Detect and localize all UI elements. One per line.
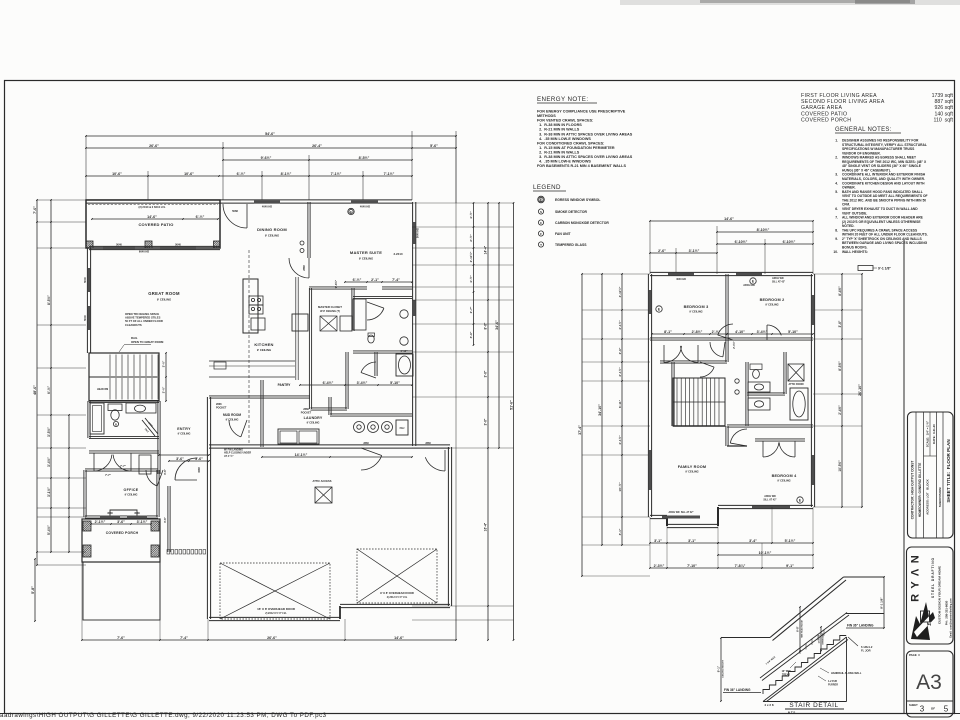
utility box bbox=[396, 420, 408, 435]
smoke detectors dining bbox=[300, 241, 304, 245]
left dim extension lines bbox=[37, 199, 86, 201]
kitchen dashed ceiling line bbox=[248, 250, 250, 445]
master suite south wall bbox=[309, 286, 367, 288]
svg-text:4'-½": 4'-½" bbox=[469, 211, 473, 219]
svg-text:7'-7": 7'-7" bbox=[105, 473, 112, 477]
svg-text:CUSTOM DESIGN YOUR DREAM HOME: CUSTOM DESIGN YOUR DREAM HOME bbox=[938, 566, 942, 624]
svg-text:8'-5½": 8'-5½" bbox=[838, 361, 842, 371]
first floor top dimension row 4 bbox=[86, 175, 412, 177]
stairwell west wall bbox=[671, 362, 673, 426]
svg-text:CEILING HEIGHT: CEILING HEIGHT bbox=[723, 659, 725, 677]
svg-text:PANTRY: PANTRY bbox=[278, 383, 292, 387]
svg-text:6'-11": 6'-11" bbox=[618, 399, 622, 408]
bath2 vanity bbox=[748, 382, 770, 392]
svg-text:CLEANOUTS: CLEANOUTS bbox=[125, 323, 142, 327]
porch steps bbox=[83, 562, 160, 620]
water heater circles bbox=[354, 422, 365, 433]
svg-text:6'-½": 6'-½" bbox=[47, 386, 51, 394]
svg-text:TEMPERED GLASS: TEMPERED GLASS bbox=[555, 243, 587, 247]
svg-text:7'-4": 7'-4" bbox=[392, 278, 400, 282]
svg-text:3068: 3068 bbox=[198, 467, 201, 473]
svg-text:FOR VENTED CRAWL SPACES:: FOR VENTED CRAWL SPACES: bbox=[537, 119, 593, 123]
svg-text:FOR ENERGY COMPLIANCE USE PRES: FOR ENERGY COMPLIANCE USE PRESCRIPTIVE bbox=[537, 110, 626, 114]
svg-text:10'-5½": 10'-5½" bbox=[838, 460, 842, 472]
svg-text:4 x 2 8: 4 x 2 8 bbox=[764, 703, 774, 707]
scan smudge top edge bbox=[620, 0, 960, 5]
bath1 fan bbox=[113, 421, 118, 426]
bath1 counter bbox=[126, 403, 156, 413]
svg-text:METHODS: METHODS bbox=[537, 114, 556, 118]
stair triangle base bbox=[763, 701, 847, 703]
svg-text:TREAD: TREAD bbox=[782, 673, 791, 676]
svg-text:2'-1½": 2'-1½" bbox=[618, 367, 622, 377]
svg-text:9' CEILING: 9' CEILING bbox=[777, 479, 790, 483]
svg-text:OPEN TO GREAT ROOM: OPEN TO GREAT ROOM bbox=[131, 340, 164, 344]
svg-text:887 sqft: 887 sqft bbox=[935, 99, 954, 105]
svg-text:DATE: 9-21-20: DATE: 9-21-20 bbox=[932, 424, 936, 444]
master bath east wall bbox=[412, 287, 414, 352]
info scale date divider bbox=[929, 412, 931, 456]
legend egress symbol bbox=[538, 196, 545, 203]
svg-text:3'-1": 3'-1" bbox=[618, 528, 622, 535]
bedroom windows top wall bbox=[668, 273, 694, 276]
svg-text:CARBON MONOXIDE DETECTOR: CARBON MONOXIDE DETECTOR bbox=[555, 221, 609, 225]
svg-text:2. R-21 MIN IN WALLS: 2. R-21 MIN IN WALLS bbox=[537, 128, 580, 132]
svg-text:2'-6": 2'-6" bbox=[618, 347, 622, 354]
counter edge bbox=[209, 376, 295, 378]
svg-text:ADDRESS: LOT BLOCK: ADDRESS: LOT BLOCK bbox=[925, 478, 929, 514]
svg-text:4'-10": 4'-10" bbox=[735, 330, 745, 334]
wc toilet bbox=[368, 335, 374, 343]
svg-text:DINING ROOM: DINING ROOM bbox=[257, 227, 287, 232]
bedroom4 east window bbox=[812, 455, 815, 485]
svg-text:GENERAL NOTES:: GENERAL NOTES: bbox=[835, 127, 892, 133]
svg-text:3'-½": 3'-½" bbox=[162, 386, 166, 393]
svg-text:4040 HD: 4040 HD bbox=[262, 205, 272, 209]
svg-text:5040: 5040 bbox=[175, 243, 181, 247]
svg-text:ARCH WD SILL AT 42": ARCH WD SILL AT 42" bbox=[668, 511, 693, 514]
svg-text:3.: 3. bbox=[835, 173, 838, 177]
stair upper floor outline bbox=[721, 637, 770, 639]
closet shelf X bbox=[320, 316, 337, 331]
legend carbon monoxide bbox=[538, 220, 543, 225]
svg-text:2'-1½": 2'-1½" bbox=[95, 520, 106, 524]
bedroom3 dims above closet bbox=[652, 333, 727, 335]
svg-text:5'-10": 5'-10" bbox=[390, 381, 400, 385]
left dimension chain short bbox=[68, 415, 70, 552]
svg-text:3'-1½": 3'-1½" bbox=[47, 487, 51, 497]
svg-text:3'-4½": 3'-4½" bbox=[47, 457, 51, 467]
title block left border bbox=[903, 240, 905, 713]
svg-text:SUBDIVISION:: SUBDIVISION: bbox=[938, 487, 942, 508]
svg-text:5'-1½": 5'-1½" bbox=[785, 539, 796, 543]
svg-text:9' CEILING: 9' CEILING bbox=[226, 418, 239, 421]
garage overhead door 16ft bbox=[220, 563, 330, 619]
svg-text:S T E E L D R A F T I N G: S T E E L D R A F T I N G bbox=[931, 557, 935, 598]
utility room walls bbox=[330, 413, 412, 415]
svg-text:9' CEILING: 9' CEILING bbox=[265, 234, 279, 238]
hall wall to entry bbox=[157, 401, 159, 474]
svg-text:BEDROOM 2: BEDROOM 2 bbox=[760, 298, 785, 302]
svg-text:9'-6½": 9'-6½" bbox=[261, 156, 272, 160]
svg-text:50 FT OF ALL UNDER FLOOR: 50 FT OF ALL UNDER FLOOR bbox=[125, 319, 163, 323]
svg-text:POCKET: POCKET bbox=[216, 407, 227, 410]
mud room walls bbox=[206, 397, 208, 447]
svg-text:7'-1½": 7'-1½" bbox=[331, 172, 342, 176]
svg-text:E: E bbox=[752, 280, 754, 284]
svg-text:2868: 2868 bbox=[425, 442, 431, 445]
bedrooms south wall bbox=[650, 337, 813, 339]
svg-text:ATTIC ROOM: ATTIC ROOM bbox=[789, 383, 804, 386]
svg-text:3'-1½": 3'-1½" bbox=[689, 249, 700, 253]
svg-text:14'-6": 14'-6" bbox=[724, 217, 734, 221]
stair right dim bbox=[883, 577, 885, 628]
svg-text:9' CEILING: 9' CEILING bbox=[157, 298, 171, 302]
svg-text:14'-6": 14'-6" bbox=[147, 215, 157, 219]
second floor right dim chain inner bbox=[841, 274, 843, 507]
bedroom4 door bbox=[730, 429, 747, 443]
stair side dims bbox=[165, 353, 167, 401]
svg-text:5.: 5. bbox=[835, 190, 838, 194]
garage door arcs bbox=[361, 456, 382, 471]
garage overhead door 9ft bbox=[357, 549, 437, 603]
svg-text:FOR BASEMENTS R-21 MIN 4 BASEM: FOR BASEMENTS R-21 MIN 4 BASEMENT WALLS bbox=[537, 164, 626, 168]
covered patio header dashed bbox=[88, 204, 218, 206]
svg-text:R Y Λ N: R Y Λ N bbox=[910, 554, 922, 602]
svg-text:3'-6": 3'-6" bbox=[484, 370, 488, 377]
svg-text:2'-8½": 2'-8½" bbox=[692, 330, 703, 334]
svg-text:110 sqft: 110 sqft bbox=[933, 117, 953, 123]
svg-text:3-2X10: 3-2X10 bbox=[393, 252, 402, 256]
svg-text:3'-1": 3'-1" bbox=[688, 539, 696, 543]
svg-text:9.: 9. bbox=[835, 237, 838, 241]
svg-text:3'-4½": 3'-4½" bbox=[757, 330, 768, 334]
svg-text:B: B bbox=[115, 423, 117, 427]
first floor top dimension row 3 bbox=[223, 159, 412, 161]
svg-text:4'-½": 4'-½" bbox=[469, 275, 473, 283]
svg-text:BEDROOM 4: BEDROOM 4 bbox=[772, 474, 797, 478]
right dim extensions bbox=[412, 202, 514, 204]
svg-text:GARAGE AREA: GARAGE AREA bbox=[801, 105, 843, 111]
svg-text:COVERED PATIO: COVERED PATIO bbox=[138, 222, 173, 227]
svg-text:48'-6": 48'-6" bbox=[33, 385, 37, 395]
stair left dim ceiling height bbox=[720, 638, 722, 701]
svg-text:6'-8": 6'-8" bbox=[796, 625, 800, 631]
entry angled pocket bbox=[142, 420, 155, 436]
legend fan unit bbox=[538, 231, 543, 236]
second floor bottom dims bbox=[650, 542, 718, 544]
svg-text:9' CEILING: 9' CEILING bbox=[685, 470, 698, 474]
svg-text:9'-6½": 9'-6½" bbox=[334, 279, 338, 288]
br3 west window bbox=[649, 290, 652, 314]
kitchen range bbox=[249, 296, 263, 305]
bedroom4 walls bbox=[725, 426, 727, 446]
svg-text:6.: 6. bbox=[835, 207, 838, 211]
svg-text:2'-6": 2'-6" bbox=[658, 249, 666, 253]
svg-text:6040 HD: 6040 HD bbox=[139, 250, 149, 254]
svg-text:LEGEND: LEGEND bbox=[533, 184, 561, 191]
hall east wall bbox=[345, 352, 347, 409]
hall door arcs bbox=[700, 367, 714, 377]
right corner extension line bbox=[455, 136, 457, 640]
second floor bottom extensions bbox=[666, 526, 668, 568]
wc door bbox=[361, 362, 376, 373]
svg-text:5040: 5040 bbox=[83, 277, 87, 283]
egress circle master bbox=[348, 208, 354, 214]
svg-text:3. R-38 MIN IN ATTIC SPACES O: 3. R-38 MIN IN ATTIC SPACES OVER LIVING … bbox=[537, 155, 633, 159]
svg-text:6'-4½": 6'-4½" bbox=[323, 381, 334, 385]
master tub bbox=[396, 354, 413, 376]
svg-text:9' CEILING: 9' CEILING bbox=[359, 257, 373, 261]
bedroom2-3 partition bbox=[725, 274, 727, 339]
svg-text:2) 2X12 X 5'-0" LVL: 2) 2X12 X 5'-0" LVL bbox=[387, 597, 408, 599]
second floor top dim row 2 bbox=[717, 231, 813, 233]
svg-text:OF: OF bbox=[931, 707, 935, 711]
patio posts bbox=[86, 241, 93, 248]
bottom border line bbox=[0, 713, 960, 715]
svg-text:7'-7": 7'-7" bbox=[120, 464, 127, 468]
svg-text:9' X 8' OVERHEAD DOOR: 9' X 8' OVERHEAD DOOR bbox=[380, 591, 414, 595]
svg-text:3'-1": 3'-1" bbox=[654, 539, 662, 543]
svg-text:8'-6": 8'-6" bbox=[484, 322, 488, 329]
bath2 walls bbox=[745, 362, 747, 426]
svg-text:4. .35 MIN LOW-E WINDOWS: 4. .35 MIN LOW-E WINDOWS bbox=[537, 160, 591, 164]
svg-text:GREAT ROOM: GREAT ROOM bbox=[148, 291, 180, 296]
svg-text:34'-6": 34'-6" bbox=[495, 320, 499, 330]
right dim chain second bbox=[487, 203, 489, 640]
svg-text:OPEN TRI CEILING SPACE: OPEN TRI CEILING SPACE bbox=[125, 312, 159, 316]
covered patio inner dim bbox=[92, 218, 218, 220]
fridge bbox=[292, 314, 308, 331]
bath1 toilet bbox=[108, 404, 122, 411]
svg-text:2) 2X12 X 5'-0" LVL: 2) 2X12 X 5'-0" LVL bbox=[265, 612, 287, 615]
svg-text:2868: 2868 bbox=[303, 265, 306, 271]
svg-text:MASTER CLOSET: MASTER CLOSET bbox=[318, 305, 342, 309]
svg-text:FURRER: FURRER bbox=[828, 683, 838, 686]
svg-text:2'-7": 2'-7" bbox=[469, 306, 473, 313]
svg-text:14'-1½": 14'-1½" bbox=[295, 453, 308, 457]
stair handrail bbox=[760, 613, 847, 679]
svg-text:MIN HEAD ROOM: MIN HEAD ROOM bbox=[801, 620, 804, 638]
svg-text:3'-6": 3'-6" bbox=[838, 320, 842, 327]
svg-text:3. R-38 MIN IN ATTIC SPACES O: 3. R-38 MIN IN ATTIC SPACES OVER LIVING … bbox=[537, 132, 633, 136]
svg-text:4.: 4. bbox=[835, 181, 838, 185]
svg-text:CONTRACTOR: HIGH OUTPUT CONST: CONTRACTOR: HIGH OUTPUT CONST bbox=[911, 461, 915, 520]
svg-text:5'-4½": 5'-4½" bbox=[47, 525, 51, 535]
svg-text:926 sqft: 926 sqft bbox=[935, 105, 954, 111]
svg-text:3'-6": 3'-6" bbox=[163, 516, 167, 523]
laundry walls bbox=[260, 397, 262, 447]
garage east wall bbox=[447, 447, 449, 606]
mud door arc bbox=[229, 420, 241, 437]
logo small box bbox=[921, 611, 930, 622]
svg-text:E: E bbox=[799, 499, 801, 503]
second floor left dim chain inner bbox=[621, 274, 623, 545]
bath1 tub bbox=[90, 403, 104, 434]
svg-text:37'-4": 37'-4" bbox=[578, 425, 582, 435]
family room west window bbox=[649, 450, 652, 490]
svg-text:SILL AT 42": SILL AT 42" bbox=[772, 280, 785, 283]
second floor left extensions bbox=[582, 273, 650, 275]
garage north wall bbox=[209, 444, 450, 446]
svg-text:8'-1": 8'-1" bbox=[664, 330, 672, 334]
extension lines above plan bbox=[85, 136, 87, 200]
svg-text:4. .35 MIN LOW-E WINDOWS: 4. .35 MIN LOW-E WINDOWS bbox=[537, 137, 591, 141]
bath1 south wall bbox=[89, 435, 159, 437]
svg-text:HANDRAIL ALONG WALL: HANDRAIL ALONG WALL bbox=[831, 672, 862, 675]
hall walls below bedrooms bbox=[660, 360, 727, 362]
svg-text:PAGE #: PAGE # bbox=[909, 653, 920, 657]
svg-text:10'-1½": 10'-1½" bbox=[759, 551, 772, 555]
svg-text:2'-3½": 2'-3½" bbox=[732, 340, 736, 348]
right dim chain outer bbox=[513, 203, 515, 640]
stair rail bbox=[673, 425, 725, 427]
garage inner dim bbox=[262, 456, 412, 458]
left lower dim bbox=[34, 559, 36, 621]
pantry dims bbox=[300, 384, 412, 386]
svg-text:6'-½": 6'-½" bbox=[196, 215, 205, 219]
svg-text:3'-6": 3'-6" bbox=[469, 331, 473, 338]
svg-text:FL JOR: FL JOR bbox=[861, 649, 871, 653]
svg-text:10.: 10. bbox=[833, 250, 838, 254]
bath2 toilet bbox=[750, 364, 762, 370]
second floor right extensions bbox=[813, 273, 862, 275]
porch dims bbox=[91, 523, 151, 525]
svg-text:SECOND FLOOR LIVING AREA: SECOND FLOOR LIVING AREA bbox=[801, 99, 885, 105]
svg-text:2'-11½": 2'-11½" bbox=[469, 251, 473, 262]
svg-text:2'-4½": 2'-4½" bbox=[838, 405, 842, 415]
svg-text:10'-6": 10'-6" bbox=[184, 172, 194, 176]
first floor top dimension row 1 54ft6 bbox=[86, 135, 456, 137]
kitchen wall cabinets column bbox=[295, 277, 297, 380]
svg-text:FIRST FLOOR LIVING AREA: FIRST FLOOR LIVING AREA bbox=[801, 93, 877, 99]
svg-text:9' CEILING: 9' CEILING bbox=[178, 433, 191, 436]
svg-text:FAMILY ROOM: FAMILY ROOM bbox=[678, 465, 707, 469]
svg-text:COVERED PATIO: COVERED PATIO bbox=[801, 111, 847, 117]
svg-text:PH: 208-331-6650: PH: 208-331-6650 bbox=[945, 600, 949, 625]
svg-text:7'-8¼": 7'-8¼" bbox=[735, 564, 746, 568]
bedroom4 closet doors bbox=[763, 442, 779, 457]
svg-text:STAIR DETAIL: STAIR DETAIL bbox=[789, 702, 838, 709]
legend tempered glass bbox=[538, 242, 543, 247]
svg-text:HOMEOWNER: G/INGRID GILLETTE: HOMEOWNER: G/INGRID GILLETTE bbox=[918, 463, 922, 518]
info box row lines bbox=[915, 412, 917, 538]
garage south wall left bbox=[209, 616, 340, 618]
bedroom2 east window bbox=[812, 295, 815, 325]
svg-text:ENTRY: ENTRY bbox=[177, 427, 191, 431]
svg-text:9' CEILING: 9' CEILING bbox=[257, 348, 271, 352]
svg-text:3'-4½": 3'-4½" bbox=[357, 381, 368, 385]
stairwell second floor bbox=[673, 378, 725, 426]
svg-text:T: T bbox=[540, 243, 542, 247]
wall heights callout box bbox=[858, 266, 873, 271]
svg-text:BEDROOM 3: BEDROOM 3 bbox=[684, 305, 709, 309]
svg-text:2'-1": 2'-1" bbox=[371, 278, 379, 282]
second floor top dim row 1 bbox=[650, 220, 813, 222]
svg-text:10'-6": 10'-6" bbox=[112, 172, 122, 176]
bath2 tub bbox=[790, 388, 808, 420]
svg-text:4'-1½": 4'-1½" bbox=[618, 320, 622, 330]
svg-text:51'-6": 51'-6" bbox=[509, 400, 513, 410]
pantry walls bbox=[262, 395, 310, 397]
svg-text:7'-10": 7'-10" bbox=[687, 564, 697, 568]
entry front door arc bbox=[175, 458, 197, 480]
garage west wall bbox=[206, 447, 208, 619]
svg-text:FAN UNIT: FAN UNIT bbox=[555, 232, 572, 236]
svg-text:COVERED PORCH: COVERED PORCH bbox=[106, 531, 139, 535]
svg-text:2868: 2868 bbox=[363, 442, 369, 445]
family room window bbox=[662, 516, 700, 519]
svg-text:4040 HD: 4040 HD bbox=[676, 278, 686, 281]
svg-text:5040 HD: 5040 HD bbox=[416, 228, 420, 238]
svg-text:6'-10½": 6'-10½" bbox=[735, 240, 748, 244]
svg-text:7'-4": 7'-4" bbox=[180, 636, 188, 640]
svg-text:AT 4'-½": AT 4'-½" bbox=[224, 454, 234, 458]
svg-text:ABOVE TEMPERED STILES: ABOVE TEMPERED STILES bbox=[125, 316, 161, 320]
svg-text:5040: 5040 bbox=[83, 315, 87, 321]
second floor top dim row 4 bbox=[650, 252, 717, 254]
vanity sinks bbox=[400, 310, 408, 318]
svg-text:2'-3½": 2'-3½" bbox=[654, 564, 665, 568]
legend smoke detector bbox=[538, 209, 543, 214]
svg-text:14'-6": 14'-6" bbox=[394, 636, 404, 640]
svg-text:4040 HD: 4040 HD bbox=[360, 205, 370, 209]
svg-text:4'-11½": 4'-11½" bbox=[618, 286, 622, 297]
svg-text:9' CEILING: 9' CEILING bbox=[689, 310, 702, 314]
house east wall lower bbox=[412, 352, 414, 398]
svg-text:ARCH HD: ARCH HD bbox=[743, 284, 755, 287]
bath1 walls bbox=[89, 399, 159, 401]
second floor top dim row 3 bbox=[717, 243, 813, 245]
svg-text:ENERGY NOTE:: ENERGY NOTE: bbox=[537, 96, 588, 103]
covered porch outline bbox=[82, 519, 160, 562]
svg-text:3040: 3040 bbox=[107, 512, 113, 515]
svg-text:EGRESS WINDOW SYMBOL: EGRESS WINDOW SYMBOL bbox=[555, 198, 600, 202]
svg-text:8'-1 1/8": 8'-1 1/8" bbox=[880, 597, 884, 609]
bottom extension lines bbox=[81, 562, 83, 640]
svg-text:6'-10½": 6'-10½" bbox=[783, 240, 796, 244]
bath west wall bbox=[87, 401, 89, 438]
svg-text:3'-6": 3'-6" bbox=[163, 468, 167, 475]
svg-text:2868: 2868 bbox=[216, 403, 222, 406]
stoop dims bbox=[169, 460, 209, 462]
office notch bbox=[110, 510, 137, 517]
svg-text:7.: 7. bbox=[835, 216, 838, 220]
svg-text:FIN 36" LANDING: FIN 36" LANDING bbox=[847, 624, 874, 628]
svg-text:8'-10½": 8'-10½" bbox=[757, 228, 770, 232]
svg-text:10'-½": 10'-½" bbox=[618, 482, 622, 492]
svg-text:7'-6": 7'-6" bbox=[117, 636, 125, 640]
svg-text:26'-6": 26'-6" bbox=[149, 144, 159, 148]
svg-text:8'-4½": 8'-4½" bbox=[838, 286, 842, 296]
svg-text:F: F bbox=[540, 232, 542, 236]
svg-text:3'-½": 3'-½" bbox=[162, 360, 166, 367]
svg-text:3'-6": 3'-6" bbox=[195, 457, 203, 461]
right dim chain mid bbox=[498, 203, 500, 448]
svg-text:2.: 2. bbox=[835, 156, 838, 160]
svg-text:34'-10": 34'-10" bbox=[598, 404, 602, 416]
svg-text:9' CEILING: 9' CEILING bbox=[765, 303, 778, 307]
svg-text:8'-1½": 8'-1½" bbox=[281, 172, 292, 176]
stair triangle right side bbox=[846, 637, 848, 702]
svg-text:A3: A3 bbox=[916, 671, 942, 694]
svg-text:5'-10": 5'-10" bbox=[788, 330, 798, 334]
bath2 lower vanity bbox=[748, 398, 770, 410]
svg-text:16' X 8' OVERHEAD DOOR: 16' X 8' OVERHEAD DOOR bbox=[257, 607, 296, 611]
svg-text:7'-6": 7'-6" bbox=[33, 206, 37, 214]
svg-text:26'-4": 26'-4" bbox=[312, 144, 322, 148]
garage south step bbox=[339, 606, 341, 619]
